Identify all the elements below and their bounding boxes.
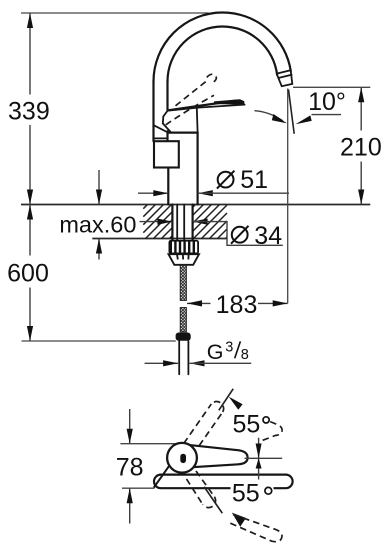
spout capsule top view [154,475,293,489]
arrow 339 top [27,13,33,28]
hose end fitting [176,333,191,341]
mounting nut taper [169,254,200,265]
nut taper facets [177,254,189,259]
spout outer arc [154,12,291,81]
dimension G38 left line [145,362,179,364]
dimension diameter 51 left line [138,192,168,194]
spout tube inner edge lower [166,131,168,141]
G3/8 thread tube right [187,341,189,374]
arrow max60 bottom [96,239,102,254]
arrow G38 left [163,360,178,366]
svg-text:8: 8 [241,347,249,363]
braided hose lower segment [180,308,186,332]
dashed raised lever tip hook [207,74,217,81]
dashed handle rotated down tip cap [203,497,216,508]
supply pipe line right [183,205,185,240]
label diameter 34 symbol [232,227,248,243]
arrow G38 right [190,360,205,366]
svg-text:210: 210 [340,134,382,162]
handle lever top edge [168,101,236,111]
extension line outlet level (210 ref) [293,86,370,88]
extension line handle top (78 ref) [120,443,179,445]
bowtie arrow lower [256,458,262,468]
arrow 183 left [187,300,202,306]
G3/8 thread tube left [178,341,180,374]
spout inner arc [168,27,278,82]
arrow max60 top [96,190,102,205]
dashed handle rotated down edge A [196,471,214,497]
extension line top of spout (339 ref) [21,12,209,14]
dimension 183 right line [258,302,288,304]
dashed capsule lower [230,514,282,541]
knuckle slot [180,454,186,463]
angle stub vertical [258,438,260,480]
degree circle lower [265,487,272,494]
svg-text:55: 55 [232,480,260,508]
arrow d34 left [157,219,172,225]
degree circle upper [263,417,269,423]
dimension 600 line upper [29,205,31,256]
radial line 55 up [219,389,233,411]
dimension max.60 lower stub [98,239,100,260]
outlet 10 degree slant line [289,90,295,134]
lever top view body [188,445,248,468]
handle knuckle left outline [163,110,171,131]
dimension 339 line lower [29,125,31,205]
aerator band line 2 [279,75,291,78]
body right edge [197,133,199,205]
svg-text:10°: 10° [308,88,346,116]
aerator band line 1 [278,70,290,73]
svg-text:78: 78 [116,453,144,481]
svg-text:G: G [207,340,224,364]
handle base facet line [154,125,166,131]
tube step line [155,137,167,139]
arrow 55 down [232,513,246,527]
dimension 210 line lower [360,162,362,205]
extension line hose end (600 ref) [22,340,176,342]
shank right edge [192,205,194,240]
svg-text:34: 34 [254,222,282,250]
vertical extension line from outlet [287,89,289,304]
dimension 339 line upper [29,13,31,95]
dashed raised lever top edge [176,81,207,106]
supply pipe line left [176,205,178,240]
dashed handle rotated down edge B [187,479,203,504]
svg-text:max.60: max.60 [59,211,136,237]
svg-text:3: 3 [225,339,233,355]
dimension max.60 upper stub [98,170,100,205]
dimension diameter 34 leader [193,222,283,246]
dimension 78 lower stub [129,488,131,523]
dashed hook upper [260,422,282,442]
handle lever tip wedge [214,99,245,104]
arrow 183 right [273,300,288,306]
arrow 78 top [127,429,133,444]
shank left edge [171,205,173,240]
mounting nut knurled band [169,240,200,254]
svg-text:55: 55 [232,411,260,439]
arrow 210 bottom [358,190,364,205]
svg-text:600: 600 [7,259,49,287]
dimension 600 line lower [29,288,31,342]
body top line [168,132,198,134]
label diameter 51 symbol [218,172,234,188]
arrow 78 bottom [127,488,133,503]
spout nose / outlet [277,71,292,86]
dimension diameter 34 left line [140,221,173,223]
lever centerline [245,457,283,459]
dashed handle rotated up edge B [184,404,212,443]
arrow 210 top [358,87,364,102]
dimension 210 line upper [360,87,362,130]
arrow d34 right [193,219,208,225]
spout tube inner edge upper [166,81,168,110]
arrow 600 bottom [27,326,33,341]
spout collar box [154,141,179,167]
extension line counter top [21,204,370,206]
svg-text:183: 183 [216,291,258,319]
dashed handle rotated up tip cap [211,402,223,412]
arrow d51 left [153,190,168,196]
svg-text:51: 51 [240,166,268,194]
nut knurl slots [172,242,197,253]
bowtie arrow upper [256,444,262,459]
svg-text:339: 339 [8,98,50,126]
dimension diameter 51 right line [198,192,289,194]
arrow 10deg arc end [272,114,287,123]
dashed handle rotated up edge A [199,412,223,446]
label 55 lower mask [231,482,274,504]
dimension G38 right line [190,362,252,364]
knuckle circle [167,443,197,473]
dimension 183 left line [187,302,211,304]
leader 10deg [312,114,342,116]
arrow 600 top [27,205,33,220]
spout tube outer left edge [152,81,154,141]
body dome right edge [196,108,199,133]
body left edge [167,168,169,205]
braided hose upper segment [180,265,186,301]
angle 10 arc [255,111,283,121]
extension line spout edge (78 ref) [122,487,155,489]
counter section hatching [143,205,227,239]
arrow 339 bottom [27,190,33,205]
dashed raised lever underside [166,95,214,125]
arrow d51 right [198,190,213,196]
handle lever underside [168,105,244,111]
handle cap slope line [154,462,172,487]
dimension 78 upper stub [129,409,131,444]
extension line counter bottom [92,238,227,240]
arrow 55 up [229,397,243,410]
arrow 10deg leader [296,115,312,124]
radial line 55 down [204,487,222,513]
